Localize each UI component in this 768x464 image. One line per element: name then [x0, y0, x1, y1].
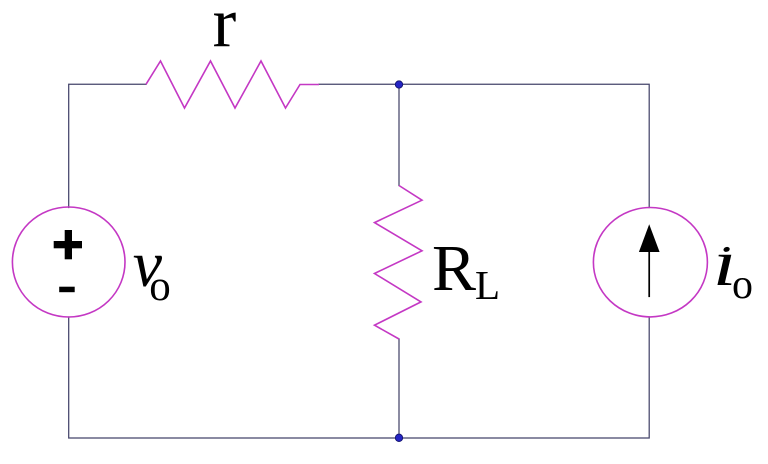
svg-text:R: R [432, 232, 476, 305]
svg-text:r: r [213, 0, 237, 62]
svg-text:L: L [475, 262, 500, 308]
svg-text:o: o [149, 263, 171, 310]
svg-text:o: o [732, 262, 753, 308]
